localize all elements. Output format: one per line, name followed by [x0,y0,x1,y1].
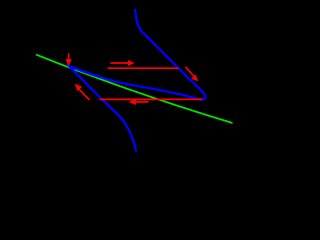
red vertical down-arrow at left knee [68,53,70,60]
red long jump line (upper, no head) [108,67,179,69]
red diagonal arrow near right knee (pointing down-right along upper branch) [186,67,195,77]
red long jump line (lower, no head) [100,98,203,100]
red short arrow (upper, pointing right) [111,62,130,64]
green nullcline (near-straight line, gentle bow) [36,55,233,123]
red diagonal arrow on lower-left branch (pointing up-left) [79,89,90,100]
blue cubic nullcline (S-curve): upper branch, right knee hook, middle branch, left knee, lower branch [69,9,206,152]
red short arrow (lower, pointing left) [133,101,149,103]
